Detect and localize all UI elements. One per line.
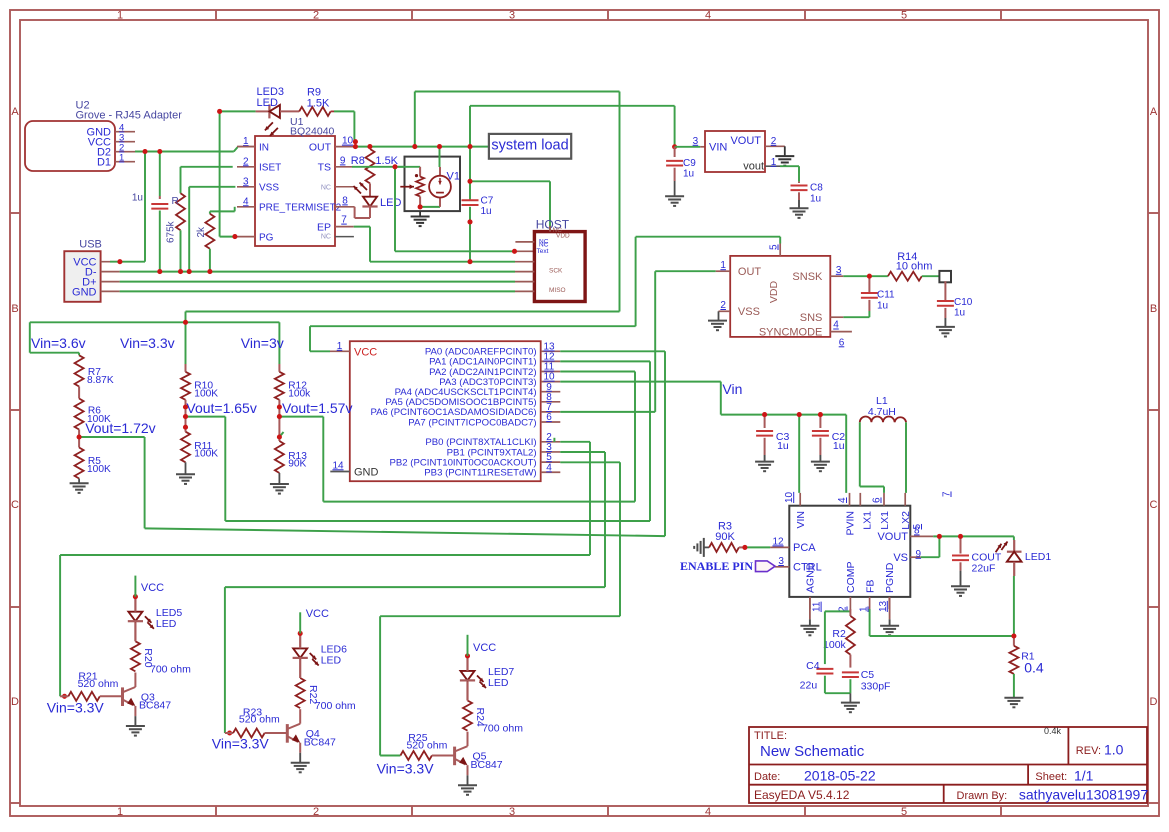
svg-text:MISO: MISO xyxy=(549,287,566,294)
svg-text:NC: NC xyxy=(321,185,331,192)
svg-text:BC847: BC847 xyxy=(304,736,336,748)
svg-text:Vin=3.3v: Vin=3.3v xyxy=(120,335,175,351)
svg-text:1u: 1u xyxy=(683,169,694,180)
svg-text:520 ohm: 520 ohm xyxy=(239,714,280,726)
svg-text:1: 1 xyxy=(243,136,249,147)
svg-text:5: 5 xyxy=(901,806,907,818)
svg-text:VCC: VCC xyxy=(473,642,496,654)
svg-text:9: 9 xyxy=(916,549,922,560)
svg-text:A: A xyxy=(11,106,19,118)
svg-text:R: R xyxy=(172,196,179,207)
svg-text:520 ohm: 520 ohm xyxy=(78,678,119,690)
svg-text:VOUT: VOUT xyxy=(730,135,761,147)
svg-text:TS: TS xyxy=(318,162,331,174)
svg-text:CTRL: CTRL xyxy=(793,562,822,574)
svg-text:V1: V1 xyxy=(447,171,460,183)
svg-text:VIN: VIN xyxy=(709,141,727,153)
svg-text:LED: LED xyxy=(257,97,278,109)
svg-text:C8: C8 xyxy=(810,183,823,194)
svg-text:4.7uH: 4.7uH xyxy=(868,406,896,418)
svg-text:New Schematic: New Schematic xyxy=(760,743,865,760)
svg-text:PB3 (PCINT11RESETdW): PB3 (PCINT11RESETdW) xyxy=(424,468,536,479)
svg-text:12: 12 xyxy=(772,536,784,547)
svg-text:13: 13 xyxy=(878,600,889,612)
svg-text:COMP: COMP xyxy=(845,562,857,594)
svg-text:6: 6 xyxy=(872,497,883,503)
svg-text:VS: VS xyxy=(893,552,908,564)
svg-text:IN: IN xyxy=(259,142,269,153)
svg-text:OUT: OUT xyxy=(738,266,762,278)
svg-text:3: 3 xyxy=(778,556,784,567)
svg-text:D: D xyxy=(1150,696,1158,708)
svg-text:VSS: VSS xyxy=(259,183,279,194)
svg-text:Vin=3v: Vin=3v xyxy=(241,335,284,351)
svg-text:2: 2 xyxy=(771,136,777,147)
svg-text:10: 10 xyxy=(342,136,354,147)
svg-text:7: 7 xyxy=(341,215,347,226)
svg-text:vout: vout xyxy=(743,161,764,173)
svg-text:4: 4 xyxy=(546,462,552,473)
svg-text:VSS: VSS xyxy=(738,306,760,318)
svg-text:PVIN: PVIN xyxy=(844,511,856,536)
svg-text:B: B xyxy=(11,303,18,315)
svg-text:C11: C11 xyxy=(877,290,895,301)
svg-text:Grove - RJ45 Adapter: Grove - RJ45 Adapter xyxy=(76,110,183,122)
svg-text:1: 1 xyxy=(337,341,343,352)
svg-text:3: 3 xyxy=(509,10,515,22)
svg-text:1.5K: 1.5K xyxy=(307,98,330,110)
svg-text:1: 1 xyxy=(117,10,123,22)
svg-text:4: 4 xyxy=(837,497,848,503)
svg-text:BC847: BC847 xyxy=(139,700,171,712)
svg-text:1: 1 xyxy=(771,157,777,168)
svg-text:2: 2 xyxy=(313,10,319,22)
svg-text:PG: PG xyxy=(259,232,274,243)
svg-text:Drawn By:: Drawn By: xyxy=(957,790,1008,802)
svg-text:2018-05-22: 2018-05-22 xyxy=(804,768,876,784)
svg-text:D1: D1 xyxy=(97,156,111,168)
svg-text:1u: 1u xyxy=(132,193,143,204)
svg-text:9: 9 xyxy=(340,155,346,166)
svg-text:5: 5 xyxy=(769,244,780,250)
svg-text:1: 1 xyxy=(119,153,124,164)
svg-text:PRE_TERMISET2: PRE_TERMISET2 xyxy=(259,203,342,214)
svg-text:LED: LED xyxy=(380,197,401,209)
svg-text:90K: 90K xyxy=(715,531,735,543)
svg-text:5: 5 xyxy=(901,10,907,22)
svg-text:3: 3 xyxy=(509,806,515,818)
svg-text:SCK: SCK xyxy=(549,268,563,275)
svg-text:100K: 100K xyxy=(194,449,218,460)
svg-text:100K: 100K xyxy=(194,389,218,400)
svg-text:PA7 (PCINT7ICPOC0BADC7): PA7 (PCINT7ICPOC0BADC7) xyxy=(408,417,536,428)
svg-text:675k: 675k xyxy=(166,220,177,243)
svg-text:PCA: PCA xyxy=(793,542,816,554)
svg-text:Vout=1.65v: Vout=1.65v xyxy=(186,400,256,416)
svg-text:1u: 1u xyxy=(954,308,965,319)
svg-text:2k: 2k xyxy=(196,226,207,238)
svg-text:1: 1 xyxy=(117,806,123,818)
svg-text:10: 10 xyxy=(784,491,795,503)
svg-text:7: 7 xyxy=(942,491,953,497)
svg-text:C4: C4 xyxy=(806,660,820,672)
svg-text:Vout=1.72v: Vout=1.72v xyxy=(85,420,155,436)
svg-text:VCC: VCC xyxy=(354,346,377,358)
svg-text:1/1: 1/1 xyxy=(1074,768,1094,784)
svg-text:C: C xyxy=(11,499,19,511)
svg-text:11: 11 xyxy=(812,601,823,612)
svg-text:Vin=3.3V: Vin=3.3V xyxy=(212,736,270,752)
svg-text:C7: C7 xyxy=(481,195,494,206)
svg-text:LX1: LX1 xyxy=(862,511,874,530)
svg-text:22uF: 22uF xyxy=(972,562,996,574)
svg-text:C9: C9 xyxy=(683,158,696,169)
svg-text:sathyavelu13081997: sathyavelu13081997 xyxy=(1019,787,1148,803)
svg-text:6: 6 xyxy=(546,412,552,423)
svg-text:SNSK: SNSK xyxy=(792,271,823,283)
svg-text:Vin=3.3V: Vin=3.3V xyxy=(47,699,105,715)
svg-text:22u: 22u xyxy=(800,680,818,692)
svg-text:330pF: 330pF xyxy=(861,681,891,693)
svg-text:ISET: ISET xyxy=(259,163,281,174)
svg-text:BQ24040: BQ24040 xyxy=(290,125,335,137)
svg-text:LED: LED xyxy=(321,655,342,667)
svg-text:R8: R8 xyxy=(351,155,365,167)
svg-text:VCC: VCC xyxy=(141,582,164,594)
svg-text:EP: EP xyxy=(317,221,331,233)
svg-text:GND: GND xyxy=(354,466,379,478)
svg-text:B: B xyxy=(1150,303,1157,315)
svg-text:OUT: OUT xyxy=(309,141,332,153)
svg-text:LX2: LX2 xyxy=(900,511,912,530)
svg-text:VOUT: VOUT xyxy=(877,531,908,543)
svg-text:Date:: Date: xyxy=(754,771,780,783)
svg-text:system load: system load xyxy=(491,138,568,154)
svg-text:2: 2 xyxy=(313,806,319,818)
svg-text:LED1: LED1 xyxy=(1025,551,1051,563)
svg-text:700 ohm: 700 ohm xyxy=(482,723,523,735)
svg-text:4: 4 xyxy=(705,806,711,818)
svg-text:3: 3 xyxy=(836,265,842,276)
svg-text:NC: NC xyxy=(321,234,331,241)
svg-text:Text: Text xyxy=(537,248,549,255)
svg-text:EasyEDA V5.4.12: EasyEDA V5.4.12 xyxy=(754,788,850,802)
svg-text:Vin: Vin xyxy=(722,381,742,397)
svg-text:FB: FB xyxy=(864,580,876,593)
svg-text:700 ohm: 700 ohm xyxy=(150,663,191,675)
svg-text:Vin=3.3V: Vin=3.3V xyxy=(377,761,435,777)
svg-text:10 ohm: 10 ohm xyxy=(896,261,933,273)
svg-text:BC847: BC847 xyxy=(471,759,503,771)
svg-text:2: 2 xyxy=(243,156,249,167)
svg-text:520 ohm: 520 ohm xyxy=(406,739,447,751)
svg-text:6: 6 xyxy=(839,337,845,348)
svg-text:ENABLE PIN: ENABLE PIN xyxy=(680,559,753,573)
svg-text:2: 2 xyxy=(720,300,726,311)
svg-text:A: A xyxy=(1150,106,1158,118)
svg-text:1: 1 xyxy=(720,260,726,271)
svg-text:VCC: VCC xyxy=(306,608,329,620)
svg-text:SNS: SNS xyxy=(800,312,823,324)
svg-text:4: 4 xyxy=(243,196,249,207)
svg-text:Vout=1.57v: Vout=1.57v xyxy=(282,400,352,416)
svg-text:C10: C10 xyxy=(954,297,973,308)
svg-text:3: 3 xyxy=(693,136,699,147)
svg-text:0.4: 0.4 xyxy=(1024,660,1044,676)
svg-text:1u: 1u xyxy=(777,440,789,452)
svg-text:90K: 90K xyxy=(288,459,306,470)
svg-text:C5: C5 xyxy=(861,669,875,681)
svg-text:USB: USB xyxy=(79,239,102,251)
svg-text:TITLE:: TITLE: xyxy=(754,730,787,742)
svg-text:LED: LED xyxy=(488,677,509,689)
svg-text:Vin=3.6v: Vin=3.6v xyxy=(31,335,86,351)
svg-text:LED: LED xyxy=(156,618,177,630)
svg-text:VDD: VDD xyxy=(556,232,570,239)
svg-text:1.0: 1.0 xyxy=(1104,742,1124,758)
svg-text:700 ohm: 700 ohm xyxy=(315,700,356,712)
svg-text:LX1: LX1 xyxy=(879,511,891,530)
svg-text:4: 4 xyxy=(833,320,839,331)
svg-text:0.4k: 0.4k xyxy=(1044,726,1062,736)
svg-text:100k: 100k xyxy=(288,389,311,400)
svg-text:VDD: VDD xyxy=(768,280,780,303)
svg-text:1u: 1u xyxy=(877,300,888,311)
svg-text:100k: 100k xyxy=(823,639,847,651)
svg-text:REV:: REV: xyxy=(1076,745,1101,757)
svg-text:4: 4 xyxy=(705,10,711,22)
svg-text:Sheet:: Sheet: xyxy=(1035,771,1067,783)
svg-text:C: C xyxy=(1150,499,1158,511)
svg-text:D: D xyxy=(11,696,19,708)
svg-text:SYNCMODE: SYNCMODE xyxy=(759,327,823,339)
svg-text:PGND: PGND xyxy=(884,562,896,593)
svg-text:3: 3 xyxy=(243,176,249,187)
svg-text:1: 1 xyxy=(859,606,870,612)
svg-text:100K: 100K xyxy=(87,464,111,475)
svg-text:5: 5 xyxy=(912,524,923,530)
svg-text:1u: 1u xyxy=(833,440,845,452)
svg-text:8: 8 xyxy=(342,195,348,206)
svg-text:1u: 1u xyxy=(481,206,492,217)
svg-text:VIN: VIN xyxy=(795,511,807,529)
svg-text:14: 14 xyxy=(332,460,344,471)
svg-text:8.87K: 8.87K xyxy=(87,375,114,386)
svg-text:1u: 1u xyxy=(810,193,821,204)
svg-text:GND: GND xyxy=(72,286,97,298)
